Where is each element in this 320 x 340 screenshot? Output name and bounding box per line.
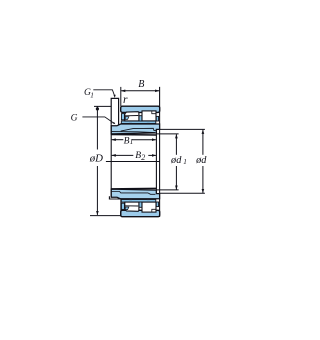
- seam line top: [111, 132, 155, 133]
- G leader arrowhead: [113, 122, 116, 124]
- Od1 bottom extension line: [156, 189, 178, 191]
- cage block bottom-left: [121, 203, 124, 209]
- roller bottom-left inner line: [125, 205, 138, 207]
- Od bottom extension line: [160, 192, 205, 194]
- dimension B1 right segment: [132, 139, 156, 141]
- cage rail bottom: [121, 200, 156, 203]
- B left extension line: [120, 87, 122, 106]
- svg-text:B: B: [138, 79, 144, 90]
- cage pip marks top: [129, 123, 132, 125]
- Od1 dimension line lower: [175, 166, 177, 190]
- svg-text:2: 2: [141, 153, 145, 162]
- OD top extension line: [94, 105, 111, 107]
- taper line top: [121, 128, 157, 131]
- outer ring bottom section: [121, 210, 160, 216]
- G1 leader line: [93, 90, 114, 96]
- OD dimension line upper: [96, 106, 98, 149]
- svg-text:1: 1: [90, 92, 94, 100]
- cage wedge in bottom-left roller: [125, 207, 129, 210]
- roller bottom-left: [125, 202, 139, 211]
- roller top-right: [142, 111, 156, 121]
- roller bottom-right chamfer mark: [152, 209, 156, 212]
- cage center rib top: [139, 116, 142, 121]
- roller top-right chamfer mark: [152, 111, 156, 114]
- inner ring and sleeve band bottom: [111, 189, 159, 199]
- left face line: [110, 125, 112, 197]
- Od1 top extension line: [156, 133, 178, 135]
- Od dimension line upper: [202, 130, 204, 155]
- roller top-left: [125, 112, 139, 121]
- locknut top-left: [111, 98, 118, 124]
- cage block top-left: [121, 114, 124, 120]
- outer ring top section: [121, 106, 160, 112]
- bore line bottom: [111, 187, 156, 190]
- Od top extension line: [160, 128, 205, 130]
- svg-text:ød: ød: [195, 155, 207, 166]
- OD dimension line lower with arrow: [96, 166, 98, 215]
- OD bottom extension line: [90, 215, 121, 217]
- locknut bottom-left: [109, 196, 121, 216]
- cage rail top: [121, 121, 156, 124]
- inner ring and sleeve band top: [111, 124, 159, 134]
- cage pip marks bottom: [129, 198, 132, 200]
- bore line top: [111, 134, 156, 137]
- cage block bottom-right: [156, 202, 158, 207]
- dimension B2 right segment: [148, 154, 156, 156]
- dimension B2 left segment: [112, 154, 134, 156]
- dimension B: [121, 90, 159, 92]
- Od1 dimension line upper: [175, 134, 177, 155]
- dimension B1 left segment: [112, 139, 124, 141]
- G leader line: [82, 117, 113, 123]
- taper line bottom: [111, 192, 155, 195]
- roller bottom-right: [142, 202, 156, 212]
- svg-text:r: r: [123, 94, 128, 106]
- svg-text:1: 1: [130, 138, 134, 146]
- G1 leader arrowhead: [114, 95, 116, 98]
- center axis line: [106, 161, 160, 163]
- Od dimension line lower: [202, 166, 204, 193]
- sleeve right face line: [155, 129, 157, 193]
- cage block top-right: [156, 116, 158, 121]
- cage wedge in top-left roller: [125, 117, 129, 120]
- roller top-left inner line: [125, 115, 138, 117]
- svg-text:ød: ød: [170, 155, 182, 166]
- OD dimension dot: [96, 107, 99, 110]
- cage center rib bottom: [139, 202, 142, 207]
- svg-text:1: 1: [183, 158, 187, 166]
- bearing right face line: [159, 87, 161, 217]
- svg-text:øD: øD: [89, 153, 103, 165]
- svg-text:G: G: [71, 113, 78, 123]
